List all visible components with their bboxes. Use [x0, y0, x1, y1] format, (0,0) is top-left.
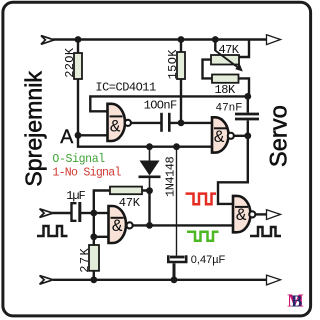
svg-text:27K: 27K	[78, 247, 92, 273]
svg-text:&: &	[236, 206, 247, 226]
svg-text:B: B	[291, 291, 302, 310]
svg-text:18K: 18K	[215, 83, 237, 97]
svg-text:A: A	[60, 126, 73, 148]
svg-text:O-Signal: O-Signal	[52, 153, 105, 166]
svg-text:Servo: Servo	[266, 105, 292, 167]
svg-text:&: &	[214, 128, 225, 148]
svg-text:IC=CD4O11: IC=CD4O11	[95, 80, 156, 94]
svg-text:47K: 47K	[219, 43, 240, 57]
svg-text:1-No Signal: 1-No Signal	[52, 167, 121, 180]
svg-text:1µF: 1µF	[66, 189, 85, 203]
svg-text:0,47µF: 0,47µF	[191, 254, 226, 266]
svg-text:Sprejemnik: Sprejemnik	[21, 71, 47, 187]
svg-text:1OOnF: 1OOnF	[144, 99, 177, 113]
svg-text:47nF: 47nF	[216, 102, 243, 114]
svg-text:&: &	[110, 117, 121, 137]
svg-text:47K: 47K	[119, 196, 141, 210]
svg-text:&: &	[112, 217, 123, 237]
svg-text:22OK: 22OK	[63, 47, 77, 78]
svg-text:1N4148: 1N4148	[164, 156, 178, 197]
svg-text:15OK: 15OK	[166, 49, 180, 80]
